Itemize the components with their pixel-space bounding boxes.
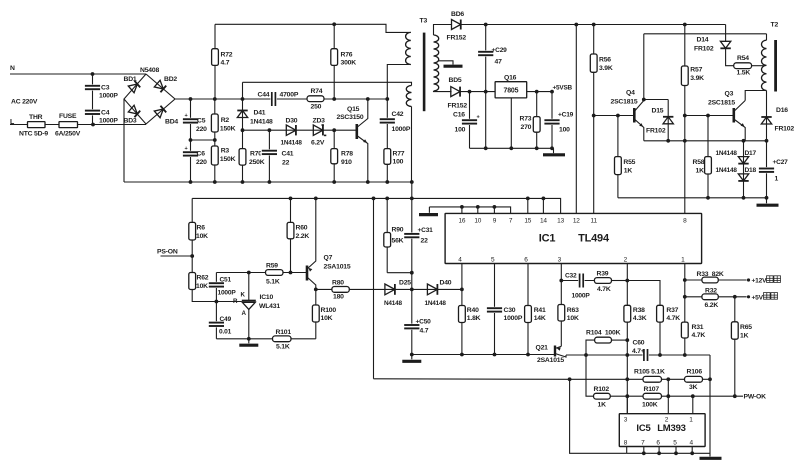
node pin10 (476, 205, 480, 209)
wire L line (10, 124, 146, 126)
op-amp IC1 TL494 box (445, 213, 701, 263)
svg-text:1N4148: 1N4148 (716, 150, 738, 157)
ground 5VSB rail (543, 153, 565, 156)
svg-text:C5: C5 (197, 118, 206, 125)
wire pins 16/10/9/7 tie (429, 207, 510, 214)
capacitor C19 (543, 119, 560, 125)
svg-text:300K: 300K (341, 60, 357, 67)
ground C50 (402, 360, 421, 363)
resistor R41 (525, 306, 532, 323)
node C27 bottom (765, 196, 769, 200)
wire LM393 pin8 stub (626, 447, 628, 454)
svg-text:4.7K: 4.7K (597, 286, 611, 293)
svg-text:R62: R62 (197, 275, 209, 282)
resistor R105 (643, 376, 662, 382)
node PS-ON (190, 254, 194, 258)
node D16 bottom (765, 139, 769, 143)
svg-text:5: 5 (673, 439, 677, 446)
comparator IC5 LM393 box (619, 414, 705, 447)
node R70 bottom (241, 180, 245, 184)
resistor R60 (287, 222, 294, 238)
wire BD5 to 7805 (461, 91, 496, 93)
node pin6 (657, 451, 661, 455)
wire pin2 bus column (626, 264, 628, 414)
svg-text:6: 6 (656, 439, 660, 446)
wire R76 column (333, 24, 335, 99)
svg-text:100: 100 (455, 127, 466, 134)
node R73 bottom (535, 146, 539, 150)
resistor R37 (657, 305, 664, 322)
node R58 bottom (706, 196, 710, 200)
capacitor C60 (643, 348, 649, 362)
node Q7 collector (314, 288, 318, 292)
node R60/R59 (289, 271, 293, 275)
wire R57 column (684, 25, 686, 141)
node C16 top (468, 90, 472, 94)
svg-text:1000P: 1000P (392, 126, 411, 133)
capacitor C16 (461, 119, 478, 125)
svg-text:100: 100 (393, 158, 404, 165)
svg-text:C16: C16 (453, 112, 465, 119)
svg-text:1000P: 1000P (99, 118, 118, 125)
svg-text:3K: 3K (689, 384, 698, 391)
wire R37 bottom (659, 322, 661, 355)
wire snubber return row y=140.8 (644, 140, 767, 142)
svg-text:FR152: FR152 (447, 35, 467, 42)
svg-text:R63: R63 (567, 307, 579, 314)
resistor R104 (595, 337, 612, 343)
diode BD6 (452, 20, 461, 30)
diode D16 (761, 117, 771, 124)
capacitor C3 (84, 84, 101, 90)
node pin2/R39 (625, 279, 629, 283)
svg-text:R104 100K: R104 100K (586, 329, 621, 336)
diode BD4 (154, 106, 166, 118)
resistor R106 (685, 376, 703, 382)
svg-text:12: 12 (573, 217, 580, 224)
resistor R56 (590, 54, 597, 72)
svg-text:N5408: N5408 (140, 67, 159, 74)
svg-text:+5VSB: +5VSB (553, 85, 573, 92)
wire Q3 base row (685, 115, 733, 117)
wire C51/C49 column (215, 273, 217, 339)
resistor R101 (273, 336, 292, 342)
svg-text:+5V: +5V (752, 295, 764, 302)
node R60 top (289, 197, 293, 201)
node R73 top (535, 90, 539, 94)
svg-text:1000P: 1000P (99, 93, 118, 100)
svg-text:R55: R55 (623, 159, 635, 166)
svg-text:R78: R78 (341, 151, 353, 158)
svg-text:R54: R54 (737, 55, 749, 62)
wire top rail y=24.3 (215, 24, 411, 32)
ground TL494 tie (419, 213, 438, 216)
diode BD3 (128, 105, 140, 117)
node Q4 collector/D15 (642, 98, 646, 102)
svg-text:R3: R3 (221, 148, 230, 155)
wire pin4 column (461, 264, 463, 355)
svg-text:10K: 10K (196, 283, 208, 290)
svg-text:R76: R76 (341, 52, 353, 59)
wire PWM feed row y=289.4 (316, 288, 462, 290)
transistor Q15 2SC3150 (355, 124, 358, 139)
svg-text:56K: 56K (392, 238, 404, 245)
capacitor C42 (379, 118, 396, 124)
wire R102 right (610, 395, 627, 397)
svg-text:R72: R72 (221, 52, 233, 59)
svg-text:R39: R39 (597, 271, 609, 278)
svg-text:R107: R107 (644, 386, 660, 393)
node C5/C6 mid (189, 138, 193, 142)
wire C50 column (411, 289, 413, 354)
capacitor C49 (208, 321, 225, 327)
node R65 bottom (733, 394, 737, 398)
node R3 bottom rail (213, 180, 217, 184)
svg-text:R2: R2 (221, 117, 230, 124)
svg-text:Q16: Q16 (504, 75, 517, 82)
svg-text:R59: R59 (266, 263, 278, 270)
diode D15 (667, 100, 669, 141)
transformer T3 core (423, 33, 426, 112)
svg-text:1N4148: 1N4148 (716, 167, 738, 174)
svg-text:Q4: Q4 (626, 90, 635, 97)
svg-text:15: 15 (524, 217, 531, 224)
wire reference row y=272.5 (216, 272, 306, 274)
capacitor C32 (578, 273, 584, 289)
node IC10 K top (247, 271, 251, 275)
svg-text:0.01: 0.01 (219, 329, 232, 336)
svg-text:D15: D15 (652, 108, 664, 115)
svg-text:4.7K: 4.7K (692, 332, 706, 339)
wire R56/pin11 column (593, 25, 595, 214)
wire R62 column (192, 256, 216, 302)
node R32/R65 (733, 295, 737, 299)
wire LM393 pin6 stub (658, 447, 660, 454)
wire C3/C4 column (92, 74, 94, 125)
resistor R2 (211, 114, 218, 132)
svg-text:C60: C60 (633, 340, 645, 347)
resistor R77 (384, 149, 391, 165)
svg-text:D41: D41 (254, 110, 266, 117)
svg-text:D17: D17 (745, 150, 757, 157)
resistor R74 (307, 96, 324, 102)
node Q15 collector (366, 97, 370, 101)
svg-text:250K: 250K (249, 159, 265, 166)
node C51/R62/IC10-R (215, 300, 219, 304)
capacitor C27 (758, 167, 775, 173)
node 7805 gnd rail (509, 146, 513, 150)
svg-text:4: 4 (689, 439, 693, 446)
node R57 top rail (683, 23, 687, 27)
svg-text:T3: T3 (420, 18, 428, 25)
regulator U-7805 Q16 (495, 82, 527, 98)
svg-text:D30: D30 (286, 118, 298, 125)
node R106/right col (708, 377, 712, 381)
node C41 top (268, 128, 272, 132)
node C29 top rail (484, 23, 488, 27)
node +5VSB (550, 90, 554, 94)
diode D17 (738, 157, 748, 164)
svg-text:N: N (10, 65, 15, 72)
resistor R32 (702, 294, 718, 300)
svg-text:270: 270 (521, 124, 532, 131)
wire LM393 pin2 stub (667, 379, 669, 413)
resistor R107 (643, 393, 662, 399)
wire C16 column (469, 92, 471, 149)
svg-text:2SC1815: 2SC1815 (611, 99, 638, 106)
svg-text:WL431: WL431 (259, 303, 280, 310)
svg-text:D25: D25 (399, 280, 411, 287)
svg-text:3: 3 (624, 417, 628, 424)
svg-text:+12V: +12V (752, 278, 768, 285)
wire pin5/C30 column (494, 264, 496, 355)
svg-text:R57: R57 (690, 67, 702, 74)
wire IC10 gnd stub (248, 339, 250, 344)
wire R65 column (734, 297, 736, 396)
node C31 bottom (410, 271, 414, 275)
resistor R58 (707, 116, 709, 198)
svg-text:10K: 10K (196, 233, 208, 240)
svg-text:C51: C51 (220, 277, 232, 284)
wire pin15 stub (527, 198, 529, 213)
node Q4 base / R56 (592, 114, 596, 118)
svg-text:BD6: BD6 (451, 11, 464, 18)
svg-text:150K: 150K (220, 156, 236, 163)
node D41 bottom (241, 128, 245, 132)
wire PW-OK row y=396.2 (627, 395, 743, 397)
bridge rectifier diamond (124, 74, 175, 124)
svg-text:AC 220V: AC 220V (11, 99, 38, 106)
svg-text:2: 2 (665, 417, 669, 424)
svg-text:FUSE: FUSE (59, 113, 77, 120)
wire collector row A y=355 (566, 354, 710, 356)
svg-text:NTC 5D-9: NTC 5D-9 (19, 131, 48, 138)
svg-text:FR152: FR152 (448, 103, 468, 110)
node pin15 stub (526, 197, 530, 201)
wire C31 column (411, 198, 413, 289)
node pin1/R33 (683, 278, 687, 282)
svg-text:1K: 1K (696, 167, 705, 174)
diode D40 (427, 284, 437, 295)
node Q15 emitter bottom (366, 180, 370, 184)
diode BD1 (128, 81, 140, 93)
node R104/pin2-bus (625, 338, 629, 342)
svg-text:R41: R41 (534, 307, 546, 314)
svg-text:10K: 10K (321, 315, 333, 322)
wire LM393 pin8 branch (570, 379, 627, 453)
svg-text:C32: C32 (565, 273, 577, 280)
wire aux rail y=198.4 (192, 198, 560, 213)
svg-text:C42: C42 (392, 111, 404, 118)
resistor R73 (533, 117, 540, 133)
wire Q4 collector to D15 (644, 99, 668, 101)
wire right ground rail y=197.8 (618, 197, 767, 199)
capacitor C50 (403, 324, 420, 330)
svg-text:100K: 100K (642, 402, 658, 409)
svg-text:10K: 10K (567, 315, 579, 322)
node R105 left / pin2-bus (625, 377, 629, 381)
wire R54 to T2 tap (752, 65, 765, 67)
wire R33 row (685, 279, 747, 281)
wire T3 secondary tap (438, 61, 453, 65)
svg-text:R40: R40 (467, 307, 479, 314)
node D17 top / Q3 emitter (742, 139, 746, 143)
wire T3 secondary top (434, 25, 453, 36)
node R37 bottom row A (658, 353, 662, 357)
node R90 top (385, 197, 389, 201)
node R78 top (332, 128, 336, 132)
svg-text:Q15: Q15 (347, 106, 360, 113)
svg-text:220: 220 (196, 126, 207, 133)
wire C42/R77 column (386, 99, 388, 182)
svg-text:BD2: BD2 (164, 76, 177, 83)
transistor Q3 2SC1815 (732, 108, 735, 123)
svg-text:FR102: FR102 (646, 128, 666, 135)
svg-text:IC1: IC1 (539, 233, 556, 245)
wire T3 primary2 bottom to rail (411, 107, 413, 183)
wire tie gnd stub (428, 207, 430, 213)
svg-text:R105 5.1K: R105 5.1K (634, 369, 665, 376)
resistor R63 (558, 305, 565, 322)
node R105/R106/LM-pin2 (666, 377, 670, 381)
svg-text:BD1: BD1 (124, 76, 137, 83)
svg-text:IC5: IC5 (636, 423, 651, 434)
resistor R54 (734, 63, 752, 69)
node Q7 emitter top (314, 197, 318, 201)
wire LM393 pin5 stub (675, 447, 677, 454)
wire Q4 base row (594, 115, 634, 117)
wire C50 gnd stub (411, 355, 413, 360)
svg-text:D40: D40 (440, 280, 452, 287)
wire C41 column (268, 130, 270, 182)
svg-text:TL494: TL494 (578, 233, 610, 245)
svg-text:250: 250 (311, 104, 322, 111)
svg-text:+C27: +C27 (773, 159, 789, 166)
fuse FUSE (59, 122, 78, 128)
svg-text:22: 22 (421, 238, 429, 245)
svg-text:2SA1015: 2SA1015 (324, 264, 351, 271)
node pin3/C32 (559, 279, 563, 283)
svg-text:1K: 1K (598, 402, 607, 409)
node +5V out (747, 295, 750, 298)
wire R102 branch (586, 355, 594, 396)
diode D30 (286, 125, 296, 135)
diode D41 (237, 110, 247, 117)
svg-text:LM393: LM393 (657, 423, 686, 434)
node D25/C31/C50 (410, 288, 414, 292)
wire pin6 column (527, 264, 529, 355)
wire R106 right (703, 378, 711, 380)
wire N line (10, 73, 146, 75)
svg-text:D14: D14 (697, 37, 709, 44)
wire C19 column (551, 92, 553, 149)
svg-text:R38: R38 (633, 307, 645, 314)
wire D16 column (766, 91, 768, 141)
svg-text:47: 47 (495, 59, 503, 66)
resistor R102 (594, 393, 611, 399)
wire LM393 pin7 stub (643, 447, 645, 454)
node IC10 A bottom (247, 337, 251, 341)
svg-text:100: 100 (559, 127, 570, 134)
node LM-pin1 / PW-OK row (691, 394, 695, 398)
node D40/R40/pin4 (460, 288, 464, 292)
wire snubber row y=82.3 (243, 82, 412, 85)
node R107 left (625, 394, 629, 398)
transformer T3 secondary (434, 35, 439, 91)
resistor R72 (212, 49, 219, 66)
node D41 top (241, 97, 245, 101)
wire LM393 pin4 stub (691, 447, 693, 454)
wire IC10 K column (248, 273, 250, 301)
wire R6 column (191, 198, 193, 256)
wire bridge + output (175, 98, 215, 100)
node pin9 (493, 205, 497, 209)
svg-text:1000P: 1000P (218, 290, 237, 297)
resistor R59 (266, 270, 284, 276)
wire C32 row (561, 280, 594, 282)
wire Q15 base row y=130.2 (243, 129, 357, 131)
node R77 bottom (385, 180, 389, 184)
node N junction C3 (91, 72, 95, 76)
resistor R40 (459, 306, 466, 323)
wire R90 column (386, 198, 388, 272)
svg-text:R77: R77 (393, 151, 405, 158)
wire C27 column (766, 141, 768, 198)
wire 7805 output (527, 91, 552, 93)
resistor R57 (681, 66, 688, 86)
capacitor C5 (182, 118, 199, 124)
svg-text:+C31: +C31 (418, 227, 434, 234)
node C5 top (189, 97, 193, 101)
transistor Q7 2SA1015 (306, 266, 309, 281)
svg-text:1: 1 (689, 417, 693, 424)
ground LM393 (700, 457, 722, 460)
svg-text:4.7: 4.7 (221, 60, 230, 67)
svg-text:R101: R101 (276, 329, 292, 336)
wire T3 primary1 bottom (387, 65, 411, 100)
svg-text:IC10: IC10 (260, 294, 274, 301)
svg-text:R60: R60 (296, 225, 308, 232)
wire R90-C31 link (387, 272, 412, 274)
wire IC10 ground row y=338.8 (216, 338, 315, 340)
svg-text:T2: T2 (771, 22, 779, 29)
svg-text:C6: C6 (197, 151, 206, 158)
transformer T3 primary winding 2 (406, 86, 411, 107)
wire gnd stub (553, 148, 555, 153)
svg-text:180: 180 (333, 294, 344, 301)
wire R37 branch (627, 281, 660, 306)
wire R78 column (333, 130, 335, 182)
ground right rail (766, 198, 768, 204)
svg-text:4: 4 (458, 257, 462, 264)
svg-text:C30: C30 (504, 307, 516, 314)
wire LM393 bottom gnd row (627, 452, 710, 454)
svg-text:14: 14 (540, 217, 547, 224)
wire right col to ground (709, 355, 711, 457)
svg-text:PW-OK: PW-OK (744, 393, 767, 400)
svg-text:6.2K: 6.2K (705, 302, 719, 309)
node D15 bottom (666, 139, 670, 143)
wire R70 column (242, 130, 244, 182)
wire comparator bias row y=379.3 (374, 378, 644, 381)
svg-text:R65: R65 (740, 324, 752, 331)
svg-text:4.3K: 4.3K (633, 315, 647, 322)
svg-text:4.7+: 4.7+ (632, 348, 645, 355)
svg-text:8: 8 (624, 439, 628, 446)
capacitor C29 (477, 50, 494, 56)
thermistor THR (28, 122, 46, 128)
node pin14 stub (542, 197, 546, 201)
